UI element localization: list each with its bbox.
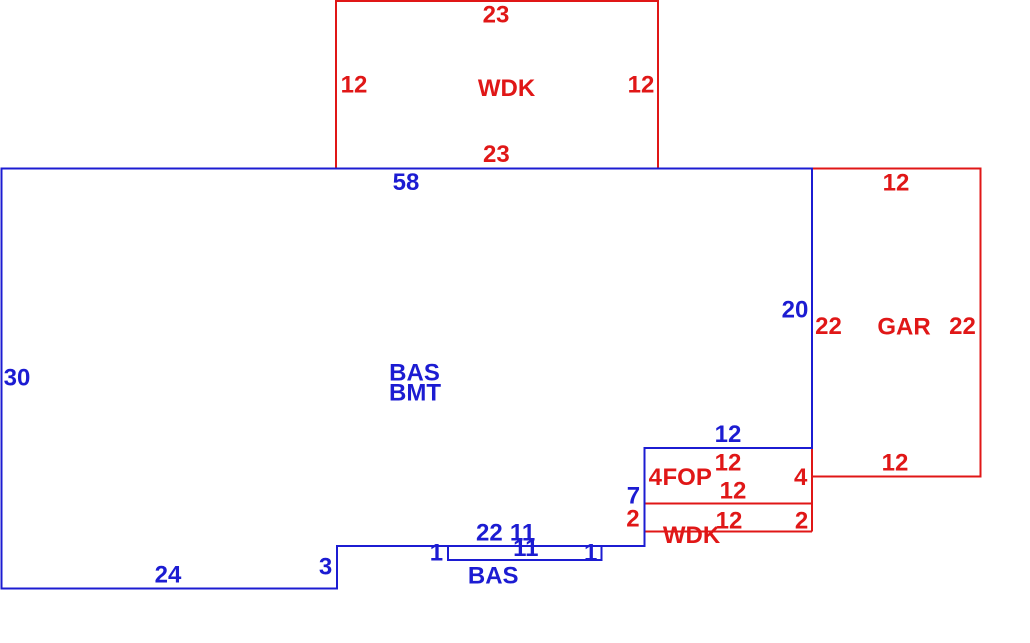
svg-text:12: 12 [715, 421, 742, 448]
red right edge of FOP/WDK lower [811, 448, 813, 532]
svg-text:FOP: FOP [663, 464, 712, 491]
svg-text:WDK: WDK [663, 522, 721, 549]
svg-text:23: 23 [483, 141, 510, 168]
svg-text:WDK: WDK [478, 75, 536, 102]
svg-text:22: 22 [815, 313, 842, 340]
svg-text:BAS: BAS [468, 562, 519, 589]
svg-text:2: 2 [795, 508, 808, 535]
svg-text:20: 20 [782, 296, 809, 323]
svg-text:BMT: BMT [389, 379, 441, 406]
WDK lower bottom edge (red) [645, 531, 813, 533]
svg-text:30: 30 [4, 364, 31, 391]
svg-text:12: 12 [715, 450, 742, 477]
FOP bottom edge (red) [645, 503, 813, 505]
svg-text:12: 12 [882, 449, 909, 476]
svg-text:22: 22 [476, 520, 503, 547]
svg-text:12: 12 [720, 477, 747, 504]
svg-text:58: 58 [393, 169, 420, 196]
svg-text:12: 12 [341, 71, 368, 98]
svg-text:3: 3 [319, 554, 332, 581]
svg-text:23: 23 [483, 1, 510, 28]
svg-text:11: 11 [513, 535, 538, 562]
svg-text:GAR: GAR [877, 314, 930, 341]
WDK top deck rectangle [336, 1, 658, 169]
svg-text:1: 1 [584, 539, 597, 566]
svg-text:22: 22 [949, 313, 976, 340]
svg-text:12: 12 [883, 169, 910, 196]
BAS BMT main outline (blue) [2, 169, 813, 589]
svg-text:24: 24 [155, 561, 182, 588]
svg-text:12: 12 [628, 71, 655, 98]
GAR garage rectangle [812, 169, 981, 477]
svg-text:4: 4 [649, 464, 663, 491]
small BAS strip rectangle (blue) [448, 546, 602, 560]
svg-text:1: 1 [430, 539, 443, 566]
svg-text:2: 2 [626, 506, 639, 533]
svg-text:4: 4 [794, 464, 808, 491]
